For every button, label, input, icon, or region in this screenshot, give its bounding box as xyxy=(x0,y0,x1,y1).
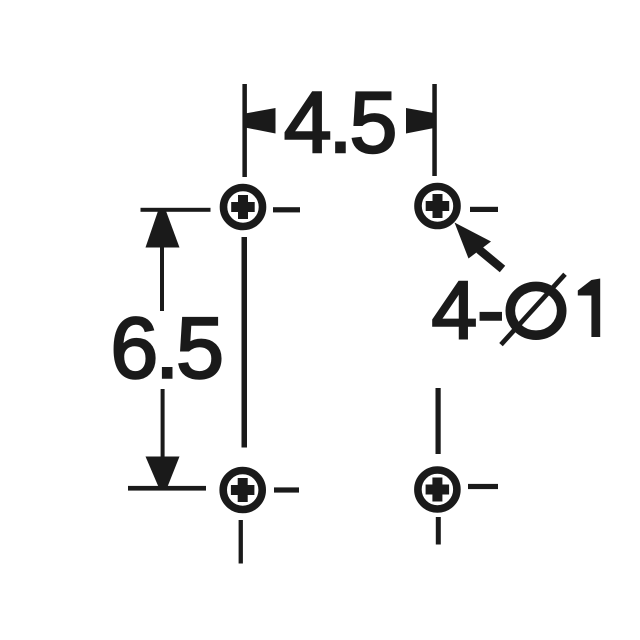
svg-text:4.5: 4.5 xyxy=(284,75,395,171)
svg-text:6.5: 6.5 xyxy=(110,301,221,397)
svg-text:4-: 4- xyxy=(432,265,505,356)
